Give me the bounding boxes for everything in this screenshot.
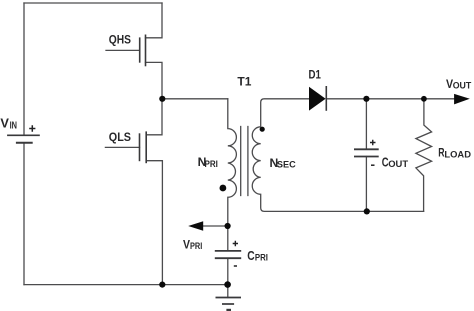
svg-text:IN: IN [10, 121, 17, 132]
svg-text:QLS: QLS [109, 130, 131, 144]
svg-text:PRI: PRI [190, 241, 203, 252]
svg-text:D1: D1 [309, 68, 321, 82]
svg-text:LOAD: LOAD [444, 149, 471, 160]
svg-text:OUT: OUT [453, 81, 472, 92]
svg-text:PRI: PRI [205, 159, 219, 170]
svg-text:T1: T1 [237, 75, 251, 89]
svg-text:V: V [0, 116, 9, 131]
svg-text:SEC: SEC [277, 160, 296, 171]
svg-text:OUT: OUT [388, 159, 408, 170]
svg-text:PRI: PRI [255, 253, 268, 264]
svg-text:QHS: QHS [109, 33, 131, 47]
svg-text:C: C [247, 249, 254, 263]
